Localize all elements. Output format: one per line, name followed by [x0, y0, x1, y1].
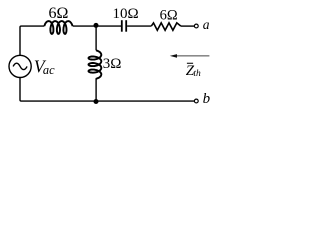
label Zth with overbar [187, 62, 193, 64]
Zth arrow pointing left [176, 55, 209, 57]
inductor 3ohm coil vertical [89, 50, 102, 78]
resistor 6ohm zigzag [151, 23, 181, 30]
wire: left rail top and top wire to coil [20, 26, 44, 55]
wire: left rail bottom and bottom wire to terminal b [20, 77, 195, 101]
AC source circle [9, 55, 31, 77]
svg-text:b: b [203, 91, 211, 107]
svg-text:6Ω: 6Ω [160, 7, 178, 23]
wire: capacitor to resistor [127, 25, 151, 27]
terminal a open circle [194, 24, 198, 28]
capacitor right plate [125, 20, 127, 32]
wire: coil to capacitor [73, 25, 121, 27]
svg-text:6Ω: 6Ω [49, 5, 69, 22]
svg-text:10Ω: 10Ω [113, 6, 139, 22]
terminal b open circle [194, 99, 198, 103]
node junction dot bottom [94, 99, 99, 104]
AC source sine wave [13, 63, 27, 69]
inductor 6ohm coil [44, 21, 72, 34]
wire: top dot down to vertical coil [95, 26, 97, 51]
wire: resistor to terminal a [181, 25, 195, 27]
svg-text:ac: ac [43, 63, 55, 77]
svg-text:th: th [193, 69, 201, 79]
node junction dot top [94, 23, 99, 28]
capacitor left plate [121, 20, 123, 32]
wire: vertical coil to bottom dot [95, 78, 97, 101]
svg-text:a: a [203, 17, 210, 32]
svg-text:3Ω: 3Ω [103, 56, 122, 72]
